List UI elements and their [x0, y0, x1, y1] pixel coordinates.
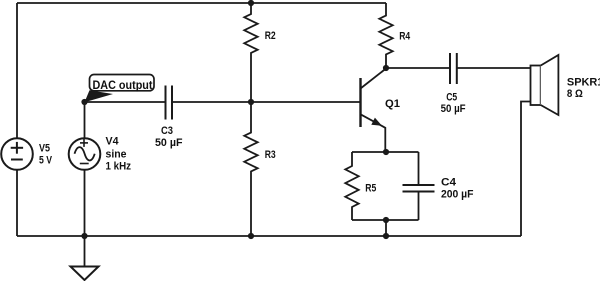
svg-text:SPKR1: SPKR1 — [567, 77, 600, 89]
ground — [71, 267, 99, 281]
capacitor C4 — [403, 152, 435, 220]
svg-text:DAC output: DAC output — [93, 80, 153, 92]
wire V5 bottom lead — [16, 170, 18, 236]
wire speaker return — [521, 102, 531, 237]
svg-text:C5: C5 — [446, 92, 457, 104]
wire collector node to C5 — [386, 67, 450, 69]
svg-text:V4: V4 — [106, 136, 120, 148]
wire left rail — [16, 3, 18, 138]
capacitor C3 — [166, 86, 173, 120]
node emitter RC top junction — [383, 149, 389, 155]
svg-text:R4: R4 — [399, 31, 411, 43]
wire ground stem — [84, 236, 86, 267]
svg-text:sine: sine — [106, 149, 127, 161]
node R3 bottom junction — [248, 233, 254, 239]
svg-text:C3: C3 — [161, 125, 173, 137]
wire top rail — [17, 2, 386, 4]
svg-text:R3: R3 — [265, 149, 276, 161]
svg-text:50 µF: 50 µF — [155, 137, 183, 149]
svg-text:C4: C4 — [441, 177, 457, 189]
capacitor C5 — [450, 53, 457, 84]
resistor R5 — [345, 152, 358, 220]
wire bottom rail — [17, 235, 521, 237]
svg-text:V5: V5 — [39, 143, 50, 155]
node R2 top junction — [248, 0, 254, 6]
DAC output callout — [90, 75, 155, 91]
node ground junction — [81, 233, 87, 239]
voltage source V5 — [1, 138, 33, 170]
node RC bottom junction — [383, 217, 389, 223]
svg-text:200 µF: 200 µF — [441, 189, 474, 201]
resistor R3 — [244, 102, 257, 236]
svg-text:R5: R5 — [365, 183, 376, 195]
svg-text:R2: R2 — [265, 30, 276, 42]
node R3 top junction — [248, 99, 254, 105]
node RC rail junction — [383, 233, 389, 239]
wire C5 to speaker — [457, 67, 531, 69]
wire DAC node to C3 — [85, 101, 166, 103]
wire V4 top lead — [84, 102, 86, 138]
svg-text:8 Ω: 8 Ω — [567, 88, 583, 100]
wire RC network bottom — [352, 219, 419, 221]
speaker SPKR1 — [531, 66, 541, 106]
wire C3 to Q1 base — [172, 101, 360, 103]
node collector junction — [383, 65, 389, 71]
resistor R4 — [379, 3, 392, 68]
svg-text:1 kHz: 1 kHz — [106, 161, 132, 173]
voltage source V4 — [69, 138, 101, 170]
transistor Q1 — [361, 69, 387, 153]
svg-text:Q1: Q1 — [385, 98, 400, 110]
svg-text:50 µF: 50 µF — [441, 103, 466, 115]
wire RC network top — [352, 151, 419, 153]
resistor R2 — [244, 3, 257, 102]
svg-text:5 V: 5 V — [39, 155, 53, 167]
wire V4 bottom lead — [84, 170, 86, 236]
node DAC output junction — [81, 99, 87, 105]
wire RC to bottom rail — [385, 220, 387, 236]
